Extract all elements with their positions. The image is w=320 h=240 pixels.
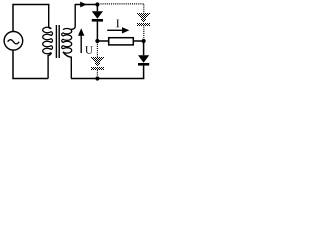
voltage arrowhead U (pointing up): [78, 28, 84, 36]
wire: secondary top rail: [75, 4, 96, 6]
wire: dotted right leg upper segment: [143, 5, 145, 14]
current label I above resistor: [116, 20, 119, 28]
wire: dotted top rail continuation (alternative branch): [101, 3, 145, 5]
wire: right leg from junction down to diode VD2: [143, 43, 145, 55]
wire: diode VD2 down to bottom rail: [143, 66, 145, 79]
ghost diode VD1' (dithered gray, alternative position bottom): [91, 57, 104, 70]
resistor R load box: [109, 38, 134, 45]
wire: lead from top rail down into secondary winding: [71, 4, 76, 29]
wire: dotted left leg below resistor junction: [96, 44, 98, 57]
wire: diode VD1 down to resistor junction: [96, 22, 98, 40]
wire: dotted right leg lower segment: [143, 27, 145, 39]
wire: lead from secondary winding down to bottom rail: [63, 52, 71, 79]
ghost diode VD2' (dithered gray, alternative position top right): [137, 13, 150, 26]
node: junction dot at top (anode of VD1): [95, 2, 99, 6]
wire: primary circuit loop (top, left and bottom sides): [13, 5, 50, 79]
diode VD1 triangle (black): [92, 11, 103, 19]
wire: lead from top rail down into primary winding: [49, 4, 52, 28]
AC source G1 circle: [4, 32, 23, 51]
node: junction dot left of resistor: [95, 39, 99, 43]
transformer core line 2: [58, 25, 60, 58]
wire: junction to resistor left lead: [97, 40, 109, 42]
voltage arrow U shaft: [80, 34, 82, 54]
diode VD2 triangle (black): [138, 55, 149, 63]
current arrowhead for I: [122, 27, 129, 33]
wire: bottom rail of secondary circuit: [71, 78, 144, 80]
wire: resistor right lead to right junction: [133, 40, 143, 42]
AC source tilde symbol: [8, 40, 20, 44]
wire: dotted left leg down to bottom rail: [96, 70, 98, 77]
diode VD1 cathode bar: [92, 19, 103, 22]
voltage label U: [85, 46, 93, 54]
wire: lead from primary winding down to bottom of loop: [48, 53, 51, 79]
wire: short lead from junction to diode VD1: [96, 6, 98, 11]
diode VD2 cathode bar: [138, 63, 149, 66]
transformer core line 1: [55, 25, 57, 58]
node: junction dot right of resistor: [142, 39, 146, 43]
current direction arrowhead on top rail: [80, 2, 87, 8]
node: junction dot on bottom rail: [95, 76, 99, 80]
transformer primary winding L1: [43, 27, 53, 53]
current arrow shaft for I: [107, 29, 122, 31]
transformer secondary winding L2: [62, 29, 72, 54]
